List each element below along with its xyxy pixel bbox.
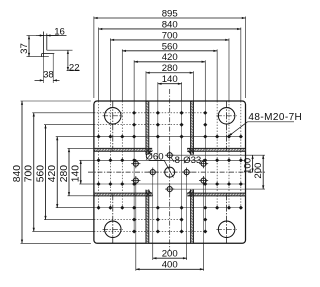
svg-text:420: 420 — [162, 52, 178, 63]
svg-text:560: 560 — [36, 165, 47, 182]
svg-text:840: 840 — [162, 19, 178, 30]
svg-text:140: 140 — [162, 74, 178, 85]
svg-text:280: 280 — [59, 165, 70, 182]
svg-text:140: 140 — [71, 165, 82, 182]
svg-text:840: 840 — [12, 165, 23, 182]
svg-text:400: 400 — [162, 260, 178, 271]
svg-text:700: 700 — [24, 165, 35, 182]
svg-text:200: 200 — [253, 163, 264, 179]
svg-text:280: 280 — [162, 63, 178, 74]
svg-text:48-M20-7H: 48-M20-7H — [248, 112, 302, 123]
svg-text:420: 420 — [47, 165, 58, 182]
svg-text:700: 700 — [162, 30, 178, 41]
svg-text:100: 100 — [243, 158, 254, 174]
svg-text:38: 38 — [43, 70, 54, 81]
svg-text:8-Ø33: 8-Ø33 — [175, 155, 202, 166]
svg-text:37: 37 — [19, 43, 30, 54]
svg-text:560: 560 — [162, 41, 178, 52]
svg-text:895: 895 — [162, 8, 178, 19]
svg-text:16: 16 — [54, 26, 65, 37]
svg-text:22: 22 — [69, 62, 80, 73]
svg-text:200: 200 — [162, 249, 178, 260]
